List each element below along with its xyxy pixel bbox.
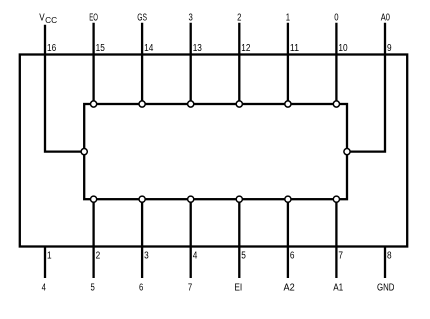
svg-text:7: 7: [338, 250, 343, 261]
svg-text:3: 3: [144, 250, 149, 261]
svg-text:15: 15: [96, 43, 106, 54]
svg-text:EI: EI: [234, 282, 242, 293]
svg-text:6: 6: [139, 282, 144, 293]
svg-text:CC: CC: [45, 16, 57, 25]
svg-text:GND: GND: [377, 282, 394, 293]
svg-text:13: 13: [193, 43, 203, 54]
svg-text:2: 2: [96, 250, 101, 261]
svg-text:EO: EO: [89, 12, 98, 23]
svg-text:16: 16: [47, 43, 57, 54]
svg-text:0: 0: [334, 12, 339, 23]
svg-text:1: 1: [47, 250, 52, 261]
svg-text:A0: A0: [381, 12, 391, 23]
svg-text:4: 4: [193, 250, 198, 261]
svg-text:8: 8: [387, 250, 392, 261]
svg-text:2: 2: [237, 12, 242, 23]
svg-text:GS: GS: [137, 12, 147, 23]
svg-text:9: 9: [387, 43, 392, 54]
svg-text:V: V: [39, 12, 45, 23]
svg-text:4: 4: [42, 282, 47, 293]
svg-text:5: 5: [90, 282, 95, 293]
svg-text:1: 1: [286, 12, 291, 23]
svg-text:A1: A1: [333, 282, 343, 293]
svg-text:7: 7: [188, 282, 193, 293]
svg-text:11: 11: [290, 43, 300, 54]
svg-text:10: 10: [338, 43, 348, 54]
svg-text:6: 6: [290, 250, 295, 261]
svg-text:12: 12: [241, 43, 251, 54]
svg-text:A2: A2: [284, 282, 296, 293]
svg-text:3: 3: [189, 12, 194, 23]
svg-text:14: 14: [144, 43, 154, 54]
svg-text:5: 5: [241, 250, 246, 261]
